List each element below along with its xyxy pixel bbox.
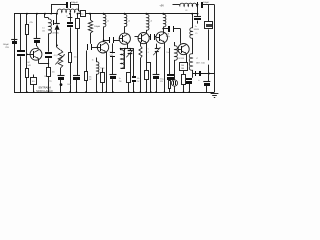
- svg-text:L4: L4: [150, 20, 152, 22]
- svg-text:100µ: 100µ: [160, 78, 164, 80]
- svg-text:100p: 100p: [67, 84, 71, 86]
- svg-text:100p: 100p: [166, 36, 170, 38]
- svg-text:BC558: BC558: [178, 58, 184, 60]
- svg-text:2W: 2W: [137, 81, 140, 83]
- svg-text:3n: 3n: [119, 78, 121, 80]
- svg-text:5: 5: [148, 48, 149, 50]
- svg-text:L2: L2: [128, 21, 130, 23]
- svg-text:160: 160: [181, 68, 184, 70]
- svg-text:L8: L8: [185, 10, 187, 12]
- svg-text:1k: 1k: [92, 59, 94, 61]
- svg-text:6: 6: [148, 52, 149, 54]
- svg-text:L5: L5: [195, 33, 197, 35]
- svg-text:10k: 10k: [42, 30, 45, 32]
- svg-text:100µ: 100µ: [48, 80, 52, 82]
- svg-text:10n: 10n: [166, 52, 169, 54]
- svg-text:2W: 2W: [119, 81, 122, 83]
- svg-text:BF494: BF494: [194, 29, 199, 31]
- svg-text:(1N60): (1N60): [53, 33, 59, 35]
- svg-text:548: 548: [28, 65, 31, 67]
- svg-text:10k: 10k: [52, 72, 55, 74]
- svg-text:100µF: 100µF: [3, 44, 10, 46]
- svg-text:100µF: 100µF: [203, 2, 209, 4]
- svg-text:10k: 10k: [44, 76, 47, 78]
- svg-text:ANT. 50Ω: ANT. 50Ω: [196, 61, 205, 64]
- svg-text:+9V: +9V: [159, 5, 164, 8]
- svg-text:L7: L7: [196, 58, 198, 60]
- svg-text:100: 100: [181, 65, 184, 67]
- svg-text:10k: 10k: [89, 76, 92, 78]
- svg-text:Cx: Cx: [81, 14, 83, 16]
- svg-text:1,5: 1,5: [42, 28, 45, 30]
- svg-text:1W: 1W: [89, 79, 92, 81]
- svg-text:100µH: 100µH: [94, 26, 100, 28]
- svg-text:25V: 25V: [5, 47, 9, 49]
- svg-text:1n: 1n: [66, 16, 68, 18]
- svg-text:ENTRADA: ENTRADA: [39, 85, 52, 89]
- svg-text:10k: 10k: [74, 57, 77, 59]
- svg-text:100µH: 100µH: [71, 2, 78, 4]
- svg-text:10k: 10k: [137, 78, 140, 80]
- svg-text:L1: L1: [107, 21, 109, 23]
- svg-text:2x: 2x: [195, 26, 197, 28]
- svg-text:C8: C8: [167, 33, 169, 35]
